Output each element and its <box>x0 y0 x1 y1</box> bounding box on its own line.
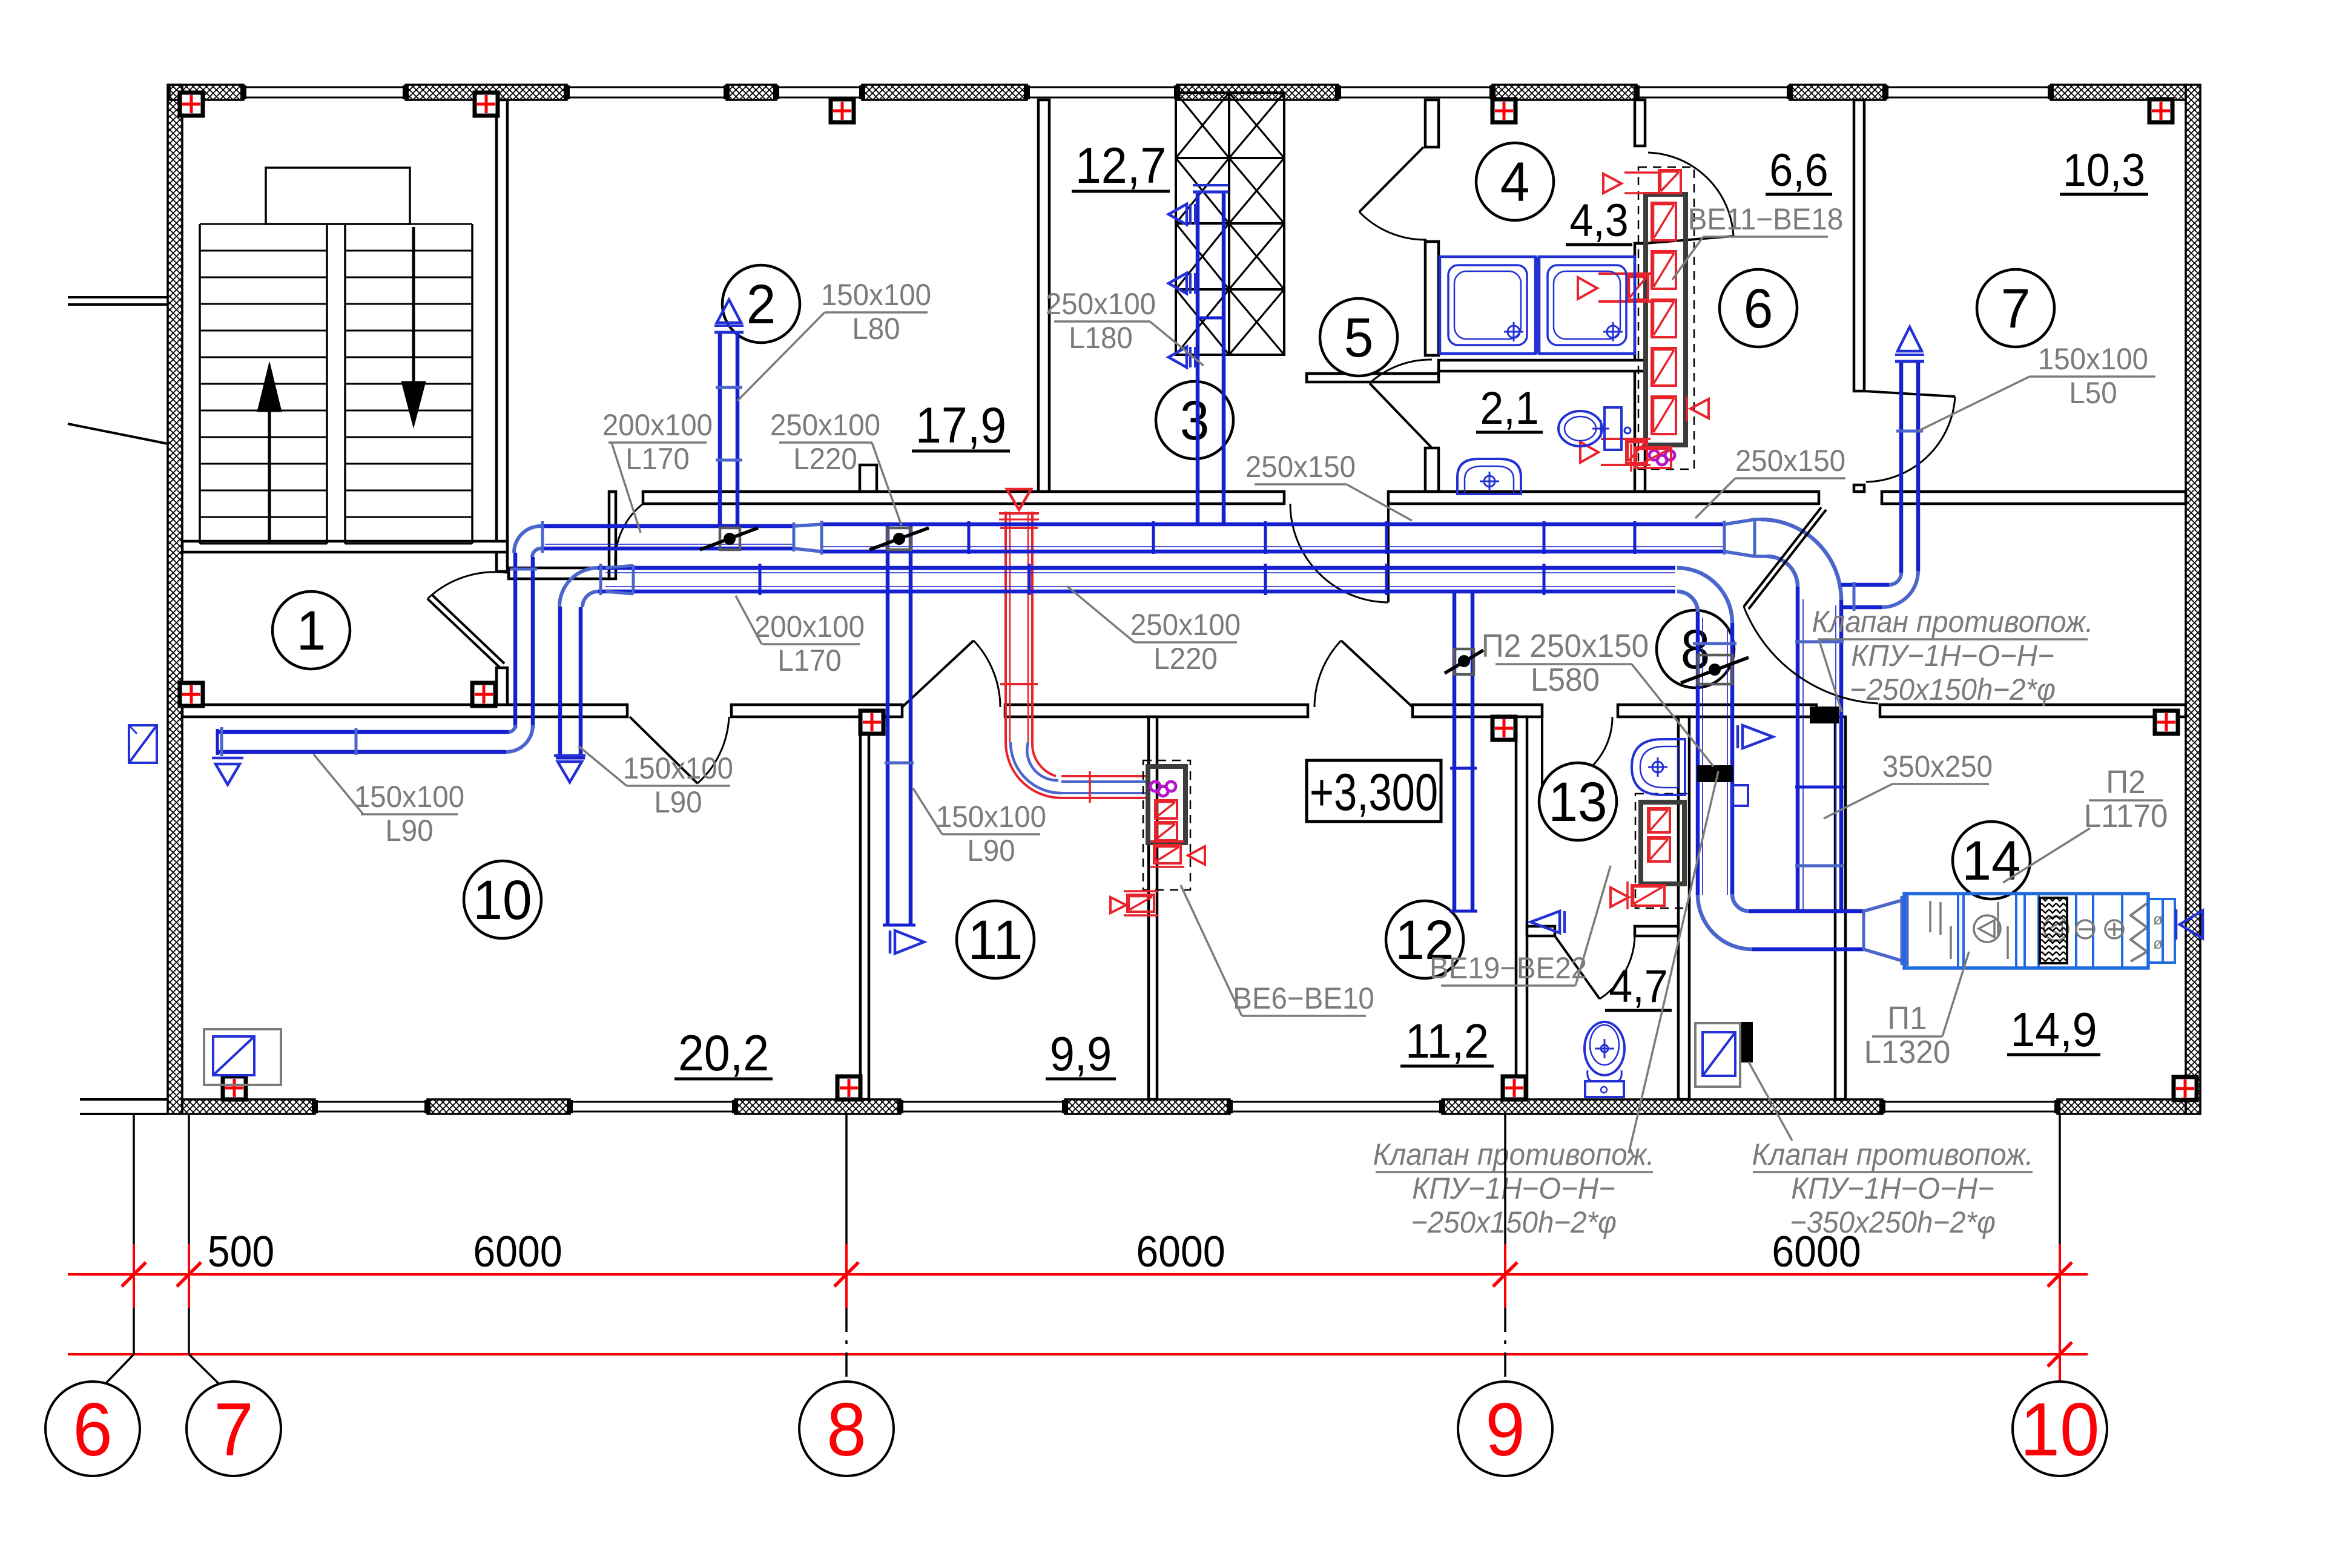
svg-text:250x100: 250x100 <box>1046 288 1156 321</box>
svg-text:7: 7 <box>214 1388 254 1471</box>
svg-text:10: 10 <box>473 869 532 932</box>
svg-text:4: 4 <box>1500 151 1530 214</box>
svg-text:L90: L90 <box>967 834 1015 868</box>
svg-text:ø: ø <box>2153 910 2163 928</box>
svg-text:250x100: 250x100 <box>770 409 880 442</box>
svg-text:150x100: 150x100 <box>936 800 1046 834</box>
svg-text:ВЕ19−ВЕ22: ВЕ19−ВЕ22 <box>1430 952 1587 985</box>
svg-text:6000: 6000 <box>1772 1227 1861 1276</box>
svg-text:L220: L220 <box>793 443 857 476</box>
svg-text:150x100: 150x100 <box>2038 343 2148 376</box>
svg-text:14: 14 <box>1962 830 2020 892</box>
svg-text:20,2: 20,2 <box>678 1025 769 1082</box>
svg-text:6000: 6000 <box>1136 1227 1225 1276</box>
svg-text:500: 500 <box>208 1227 274 1276</box>
svg-text:Клапан противопож.: Клапан противопож. <box>1373 1138 1655 1171</box>
svg-text:9: 9 <box>1485 1388 1525 1471</box>
svg-text:2: 2 <box>747 274 776 336</box>
svg-text:150x100: 150x100 <box>354 780 464 814</box>
svg-text:П2: П2 <box>2106 764 2145 800</box>
svg-text:КПУ−1Н−О−Н−: КПУ−1Н−О−Н− <box>1851 639 2054 673</box>
svg-text:250x150: 250x150 <box>1245 450 1356 484</box>
svg-text:L1320: L1320 <box>1864 1034 1951 1070</box>
svg-text:12,7: 12,7 <box>1075 137 1166 194</box>
svg-text:14,9: 14,9 <box>2010 1003 2097 1057</box>
svg-text:8: 8 <box>1681 619 1710 681</box>
svg-text:11: 11 <box>968 909 1023 972</box>
svg-text:9,9: 9,9 <box>1050 1027 1112 1081</box>
svg-text:L90: L90 <box>654 786 702 819</box>
svg-text:2,1: 2,1 <box>1480 383 1538 433</box>
svg-text:L170: L170 <box>625 443 690 476</box>
svg-text:П1: П1 <box>1887 1000 1927 1036</box>
svg-text:L220: L220 <box>1153 642 1218 676</box>
svg-text:11,2: 11,2 <box>1405 1014 1489 1069</box>
svg-text:8: 8 <box>826 1388 866 1471</box>
svg-text:+3,300: +3,300 <box>1310 763 1438 822</box>
svg-text:6: 6 <box>1744 278 1773 340</box>
svg-text:10: 10 <box>2020 1388 2099 1471</box>
svg-text:ВЕ6−ВЕ10: ВЕ6−ВЕ10 <box>1233 982 1374 1015</box>
svg-text:7: 7 <box>2001 278 2031 340</box>
svg-text:13: 13 <box>1548 771 1607 834</box>
svg-text:L80: L80 <box>852 312 900 346</box>
svg-text:350x250: 350x250 <box>1882 750 1993 783</box>
svg-text:3: 3 <box>1180 390 1210 452</box>
svg-text:6000: 6000 <box>473 1227 562 1276</box>
svg-text:П2 250x150: П2 250x150 <box>1482 628 1649 664</box>
svg-text:L1170: L1170 <box>2084 798 2168 834</box>
svg-text:ø: ø <box>2153 934 2163 952</box>
svg-text:5: 5 <box>1344 307 1374 369</box>
svg-text:Клапан противопож.: Клапан противопож. <box>1752 1138 2034 1171</box>
svg-text:200x100: 200x100 <box>602 409 713 442</box>
svg-text:200x100: 200x100 <box>754 610 865 644</box>
svg-text:КПУ−1Н−О−Н−: КПУ−1Н−О−Н− <box>1791 1172 1994 1205</box>
svg-text:1: 1 <box>297 600 326 662</box>
svg-text:4,3: 4,3 <box>1569 195 1628 246</box>
svg-text:−250x150h−2*φ: −250x150h−2*φ <box>1850 673 2056 707</box>
svg-text:Клапан противопож.: Клапан противопож. <box>1812 605 2094 639</box>
svg-text:−250x150h−2*φ: −250x150h−2*φ <box>1411 1206 1617 1239</box>
svg-text:6: 6 <box>73 1388 113 1471</box>
svg-text:10,3: 10,3 <box>2063 145 2145 196</box>
svg-text:ВЕ11−ВЕ18: ВЕ11−ВЕ18 <box>1688 203 1844 236</box>
svg-text:150x100: 150x100 <box>821 278 931 312</box>
svg-text:250x100: 250x100 <box>1130 608 1241 642</box>
svg-text:L90: L90 <box>385 814 433 848</box>
svg-text:150x100: 150x100 <box>623 752 733 785</box>
svg-text:250x150: 250x150 <box>1735 444 1845 478</box>
svg-text:17,9: 17,9 <box>915 397 1006 454</box>
svg-text:4,7: 4,7 <box>1609 961 1667 1012</box>
svg-text:L50: L50 <box>2069 377 2117 410</box>
svg-text:L170: L170 <box>777 644 842 677</box>
svg-text:КПУ−1Н−О−Н−: КПУ−1Н−О−Н− <box>1412 1172 1615 1205</box>
svg-text:6,6: 6,6 <box>1769 145 1828 196</box>
svg-text:L180: L180 <box>1069 321 1133 355</box>
svg-text:L580: L580 <box>1531 662 1600 698</box>
